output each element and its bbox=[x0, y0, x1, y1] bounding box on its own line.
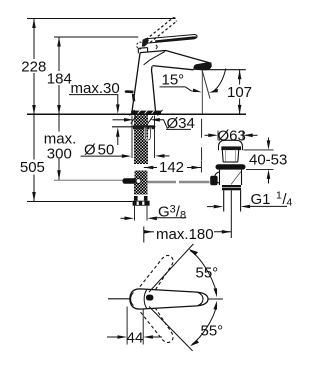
pop-up waste: neck bbox=[222, 149, 239, 162]
reference line 184 bbox=[54, 36, 138, 38]
pop-up waste: body bbox=[215, 170, 242, 185]
flexible hose (hatched) bbox=[134, 186, 148, 195]
bottom reference line (505) bbox=[27, 201, 133, 203]
cartridge mark bbox=[156, 45, 157, 49]
cartridge collar bbox=[138, 48, 147, 54]
label 505 bbox=[19, 159, 46, 176]
lever pivot block bbox=[142, 38, 149, 47]
hose collar (hatched) bbox=[135, 171, 148, 178]
pop-up rod left segment bbox=[54, 179, 124, 181]
svg-text:Ø63: Ø63 bbox=[218, 127, 246, 144]
top reference line (505/228) bbox=[27, 18, 176, 20]
pop-up waste: O-ring bbox=[216, 164, 246, 169]
water stream vertical reference line bbox=[201, 70, 203, 114]
svg-text:max.180: max.180 bbox=[156, 226, 214, 243]
pop-up waste: tailpiece bbox=[224, 190, 241, 211]
dimension Ø63 arrows bbox=[205, 134, 258, 138]
dimension Ø34 bbox=[113, 116, 192, 129]
svg-text:G11/4: G11/4 bbox=[251, 190, 293, 209]
label 15 degrees bbox=[160, 69, 226, 93]
plan view: pop-up rod stub bbox=[108, 298, 130, 300]
pop-up rod guide loop bbox=[145, 128, 150, 141]
deck line bbox=[27, 113, 246, 115]
dimension 44 extension lines bbox=[127, 307, 143, 345]
svg-text:44: 44 bbox=[127, 329, 144, 346]
faucet spout tip / aerator bbox=[193, 62, 211, 70]
plan view: centerline tick bbox=[208, 298, 223, 300]
pop-up rod knob at body bbox=[125, 90, 134, 93]
dimension max.30 bbox=[69, 95, 120, 145]
plan view: angle reference line down bbox=[149, 307, 193, 351]
threaded shank (hatched) bbox=[134, 115, 148, 164]
pop-up waste: centerline bbox=[230, 190, 232, 238]
pop-up rod right segment bbox=[148, 181, 210, 184]
dimension Ø50 bbox=[81, 154, 170, 158]
label 44 bbox=[127, 329, 144, 346]
svg-text:300: 300 bbox=[47, 145, 72, 162]
pop-up waste: dome (Ø63) bbox=[219, 140, 243, 146]
dimension 40-53 vertical bbox=[267, 138, 271, 184]
dimension max.180 bbox=[144, 227, 232, 243]
dimension G3/8 extension lines bbox=[135, 206, 148, 221]
lever handle raised (dashed) bbox=[146, 18, 176, 43]
dimension G3/8 arrows bbox=[121, 217, 187, 221]
pop-up rod junction bbox=[134, 178, 148, 186]
pop-up waste: side port knob bbox=[210, 176, 217, 185]
water stream 15-degree line bbox=[202, 70, 210, 99]
svg-text:Ø50: Ø50 bbox=[84, 141, 114, 158]
pivot dashed circle bbox=[137, 42, 142, 49]
svg-text:184: 184 bbox=[47, 71, 72, 88]
svg-text:55°: 55° bbox=[201, 323, 224, 340]
dimension 40-53 extension lines bbox=[244, 150, 274, 170]
plan view: handle dashed rotated down 55deg bbox=[140, 303, 177, 346]
pop-up waste: bottom cap bbox=[222, 185, 241, 187]
label 184 bbox=[46, 71, 73, 88]
dimension Ø63 extension lines bbox=[218, 131, 243, 141]
plan view: lower 55deg arc bbox=[190, 301, 217, 347]
plan view: handle hole bbox=[146, 295, 153, 301]
svg-text:142: 142 bbox=[159, 159, 184, 176]
dimension 228 / 505 vertical line bbox=[32, 19, 36, 202]
dimension 142 bbox=[144, 119, 202, 173]
dimension 44 bbox=[107, 335, 162, 339]
mounting nut under deck bbox=[133, 125, 154, 129]
svg-text:G3/8: G3/8 bbox=[158, 204, 186, 222]
label 107 bbox=[226, 84, 253, 101]
label 228 bbox=[20, 59, 48, 76]
label max.300 bbox=[42, 131, 78, 163]
label max.180 bbox=[155, 226, 214, 244]
spout height reference line (107) bbox=[205, 69, 246, 71]
hose end fitting bbox=[133, 196, 150, 206]
plan view: handle dashed rotated up 55deg bbox=[140, 252, 177, 295]
dimension G1 1/4 bbox=[207, 205, 287, 209]
svg-text:505: 505 bbox=[20, 159, 45, 176]
svg-text:107: 107 bbox=[227, 84, 252, 101]
faucet body outline (side elevation) bbox=[132, 51, 212, 113]
plan view: upper 55deg arc bbox=[189, 249, 217, 297]
label 40-53 bbox=[248, 151, 288, 168]
faucet base plate on deck bbox=[130, 110, 163, 116]
deck underside line bbox=[112, 126, 156, 128]
dimension Ø50 extension lines bbox=[132, 116, 155, 159]
dimension 107 bbox=[238, 70, 242, 115]
svg-text:Ø34: Ø34 bbox=[167, 115, 195, 132]
svg-text:40-53: 40-53 bbox=[249, 151, 287, 168]
plan view: angle reference line up bbox=[149, 244, 193, 292]
svg-text:max.30: max.30 bbox=[71, 80, 120, 97]
svg-text:228: 228 bbox=[21, 59, 46, 76]
svg-text:15°: 15° bbox=[162, 72, 185, 89]
dimension 184 / max.300 vertical line bbox=[57, 37, 61, 180]
plan view: handle (solid) bbox=[130, 289, 208, 309]
svg-text:55°: 55° bbox=[196, 265, 219, 282]
pop-up waste: flange band bbox=[219, 146, 243, 150]
lever handle (solid, horizontal) bbox=[146, 35, 197, 44]
